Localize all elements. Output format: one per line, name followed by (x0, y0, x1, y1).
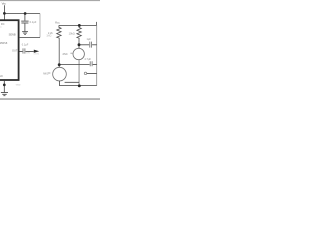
svg-text:4.7µF: 4.7µF (84, 57, 91, 61)
svg-text:1µF: 1µF (87, 38, 92, 41)
svg-text:2SC: 2SC (63, 52, 68, 56)
svg-text:io: io (0, 26, 1, 28)
svg-text:MWS8: MWS8 (0, 42, 8, 45)
svg-text:2.2k: 2.2k (48, 31, 54, 35)
svg-text:SENB: SENB (9, 33, 16, 37)
svg-text:0.1µF: 0.1µF (30, 20, 37, 24)
svg-text:10kΩ: 10kΩ (69, 32, 75, 36)
svg-text:ND: ND (0, 74, 3, 78)
svg-text:16V: 16V (26, 52, 30, 54)
svg-text:MK1: MK1 (43, 73, 49, 76)
svg-text:1MΩ: 1MΩ (46, 35, 51, 37)
svg-text:GND: GND (16, 85, 21, 87)
svg-text:OUT1: OUT1 (34, 54, 40, 56)
svg-text:OUT: OUT (12, 48, 18, 52)
svg-text:0.1µF: 0.1µF (22, 43, 29, 46)
